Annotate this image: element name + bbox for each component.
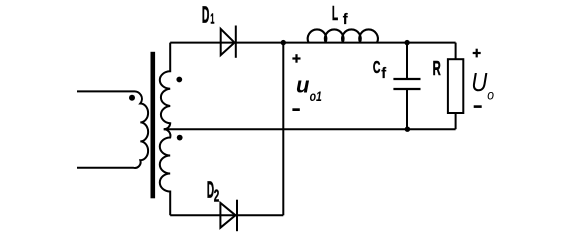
svg-text:1: 1 (210, 12, 214, 27)
label D2 (207, 177, 214, 203)
secondary upper dot (176, 77, 182, 83)
svg-text:L: L (332, 2, 338, 25)
transformer secondary upper winding (160, 43, 170, 130)
wire R bottom lead (455, 113, 457, 129)
wire Cf bottom lead (406, 89, 408, 129)
wire D2 bottom (170, 214, 283, 216)
transformer secondary lower winding (160, 129, 171, 215)
label + of u_o1 (292, 54, 300, 63)
svg-text:C: C (373, 59, 381, 79)
svg-text:D: D (202, 2, 210, 28)
svg-text:u: u (296, 73, 310, 98)
label Cf (373, 59, 381, 79)
junction node D1/D2 cathodes (281, 40, 286, 45)
primary polarity dot (129, 95, 135, 101)
svg-text:D: D (207, 177, 214, 203)
secondary lower dot (177, 135, 183, 141)
diode D1 (221, 26, 236, 58)
label Lf (332, 2, 338, 25)
wire top rail (170, 42, 455, 44)
svg-text:f: f (343, 12, 348, 28)
wire Cf top lead (406, 43, 408, 79)
svg-text:U: U (471, 69, 488, 98)
label D1 (202, 2, 210, 28)
label - of Uo (474, 105, 482, 108)
svg-text:o: o (487, 87, 494, 103)
label + of Uo (473, 49, 481, 58)
svg-text:o1: o1 (310, 89, 323, 105)
label Uo (471, 69, 488, 98)
capacitor Cf (393, 79, 420, 89)
junction node Lf-Cf top (404, 40, 409, 45)
junction node Cf bottom (405, 127, 410, 132)
label R (433, 56, 441, 80)
inductor Lf (308, 29, 378, 42)
transformer primary winding (77, 91, 148, 168)
svg-text:2: 2 (214, 186, 220, 206)
wire R top lead (455, 43, 457, 60)
wire cathode vertical (282, 43, 284, 216)
label u_o1 (296, 73, 310, 98)
label - of u_o1 (292, 108, 299, 111)
resistor R (448, 59, 463, 113)
svg-text:R: R (433, 56, 441, 80)
transformer T core (151, 52, 156, 199)
diode D2 (220, 200, 237, 232)
wire center-tap rail (164, 128, 456, 130)
svg-text:f: f (381, 66, 386, 82)
